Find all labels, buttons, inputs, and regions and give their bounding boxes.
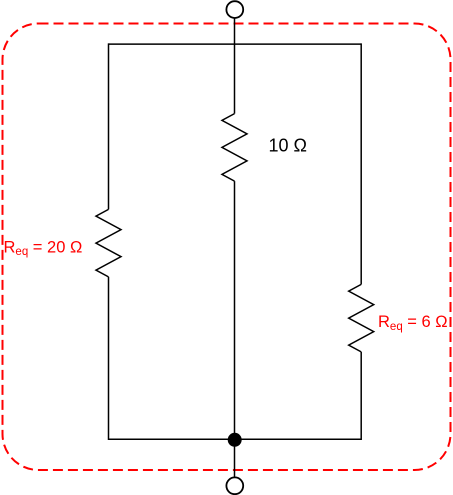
label "Req = 20 Ω" (left resistor value): [4, 238, 83, 258]
svg-text:Req = 20 Ω: Req = 20 Ω: [4, 238, 83, 258]
terminal a (top open circle): [226, 1, 243, 18]
label "Req = 6 Ω" (right resistor value): [378, 313, 448, 333]
resistor Req = 20 Ohm (left branch): [96, 209, 121, 277]
svg-text:Req = 6 Ω: Req = 6 Ω: [378, 313, 448, 333]
wire: left branch lower segment: [108, 277, 110, 440]
wire: left branch upper segment: [108, 43, 110, 209]
terminal b (bottom open circle): [226, 477, 243, 494]
resistor 10 Ohm (middle branch): [222, 114, 247, 182]
wire: right branch lower segment: [360, 352, 362, 440]
resistor Req = 6 Ohm (right branch): [349, 284, 374, 352]
wire: bottom horizontal bus: [109, 438, 362, 440]
svg-text:10 Ω: 10 Ω: [269, 135, 307, 155]
wire: right branch upper segment: [360, 43, 362, 284]
wire: middle branch lower segment (resistor to bottom terminal): [234, 181, 236, 478]
label "10 Ω" (middle resistor value): [269, 135, 307, 155]
wire: middle branch upper segment (top terminal to resistor): [234, 18, 236, 114]
node: bottom junction (filled dot): [228, 433, 242, 447]
wire: top horizontal bus: [109, 43, 362, 45]
